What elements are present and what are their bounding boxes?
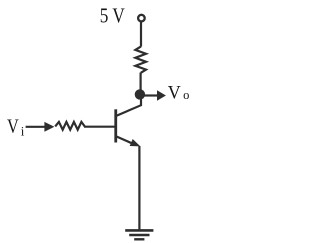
svg-text:V: V	[7, 117, 19, 138]
node (collector output junction)	[135, 89, 145, 99]
ground	[125, 230, 153, 239]
emitter wire down	[138, 146, 140, 230]
resistor RB (base resistor)	[55, 122, 85, 130]
emitter lead with arrow	[117, 137, 141, 147]
input arrow	[26, 122, 55, 132]
wire resistor to node	[140, 73, 142, 95]
svg-text:i: i	[21, 123, 25, 138]
svg-text:5 V: 5 V	[100, 3, 125, 27]
collector wire	[117, 96, 142, 116]
supply terminal circle	[138, 15, 145, 22]
resistor RC (collector resistor)	[135, 46, 146, 72]
Vo arrow	[143, 90, 166, 101]
svg-text:o: o	[183, 88, 189, 102]
wire supply to resistor	[140, 22, 142, 47]
transistor Q1 base bar	[114, 109, 117, 142]
svg-text:V: V	[168, 82, 181, 103]
base wire	[84, 126, 115, 128]
